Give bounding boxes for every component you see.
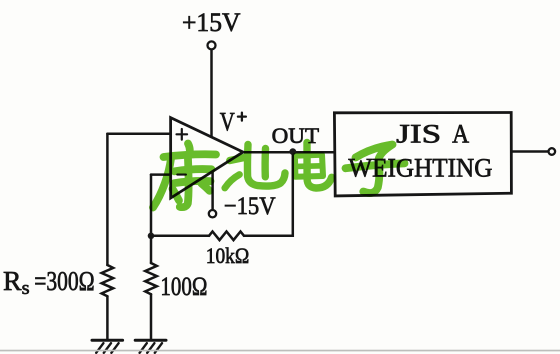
resistor 100 ohm: [145, 263, 157, 294]
watermark char zi: [346, 145, 405, 194]
op-amp U1: [171, 118, 243, 198]
op-amp inverting input marker -: [177, 174, 186, 176]
svg-text:JIS: JIS: [396, 120, 441, 149]
wire feedback node A to 10k resistor: [151, 235, 209, 238]
svg-text:10kΩ: 10kΩ: [206, 243, 250, 268]
wire 100 ohm to ground: [150, 294, 153, 340]
watermark char dian: [295, 143, 332, 189]
svg-text:s: s: [22, 278, 30, 299]
terminal +15V: [208, 41, 216, 49]
svg-text:+15V: +15V: [182, 8, 241, 37]
resistor 10k ohm feedback: [209, 232, 244, 241]
svg-text:V: V: [220, 108, 235, 137]
wire +15V supply to op-amp V+ pin: [210, 50, 213, 136]
block JIS A WEIGHTING: [334, 113, 511, 196]
ground (left): [92, 340, 123, 353]
wire 10k to output node: [244, 152, 293, 236]
svg-text:100Ω: 100Ω: [160, 272, 207, 301]
svg-text:−15V: −15V: [224, 193, 276, 220]
watermark char kang: [153, 144, 216, 208]
watermark: [153, 143, 405, 208]
svg-text:=300Ω: =300Ω: [34, 266, 94, 296]
wire block output: [511, 150, 547, 153]
scan artifact bottom edge line: [0, 350, 560, 352]
resistor Rs 300 ohm: [102, 265, 114, 296]
wire inverting input down to node A: [150, 175, 153, 236]
node output junction: [289, 148, 296, 155]
svg-text:A: A: [452, 120, 469, 149]
wire V- pin to -15V terminal: [211, 172, 214, 209]
terminal output: [549, 148, 556, 155]
wire input node down to Rs: [106, 134, 109, 265]
svg-text:R: R: [3, 266, 22, 296]
wire inverting input: [151, 173, 171, 176]
wire op-amp output to block: [243, 151, 335, 154]
terminal -15V: [209, 210, 216, 217]
wire node A to 100 ohm resistor: [150, 236, 153, 263]
svg-text:OUT: OUT: [272, 123, 320, 148]
wire Rs to ground: [106, 296, 109, 340]
node A junction: [148, 233, 155, 240]
watermark char bi: [225, 145, 285, 189]
wire noninverting input: [107, 133, 170, 136]
ground (right): [135, 340, 166, 353]
op-amp noninverting input marker +: [177, 129, 188, 140]
